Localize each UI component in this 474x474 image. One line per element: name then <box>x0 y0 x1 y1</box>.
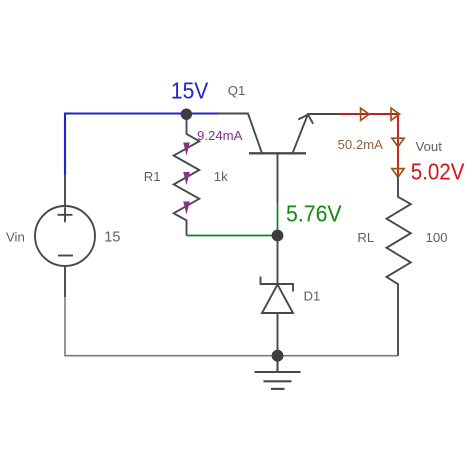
svg-text:50.2mA: 50.2mA <box>338 137 384 152</box>
svg-text:D1: D1 <box>304 289 321 304</box>
svg-text:9.24mA: 9.24mA <box>197 128 243 143</box>
svg-text:Q1: Q1 <box>228 83 246 98</box>
wire: 5.76V net horizontal (R1 bottom to base node, green) <box>187 235 278 237</box>
svg-text:R1: R1 <box>144 169 161 184</box>
diode D1 (zener) <box>261 241 294 356</box>
svg-text:5.76V: 5.76V <box>286 201 342 227</box>
svg-text:15: 15 <box>104 230 120 246</box>
resistor RL <box>387 177 411 356</box>
resistor R1 <box>174 120 200 236</box>
wire: ground net left (Vin bottom to ground node) <box>65 297 278 356</box>
svg-text:Vout: Vout <box>416 139 443 154</box>
voltage source Vin <box>35 175 95 297</box>
wire: 5.76V net vertical (Q1 base to base node, green) <box>277 203 279 236</box>
base lead <box>277 153 279 202</box>
node: ground (D1/ground junction) <box>272 350 284 362</box>
collector lead <box>218 114 263 154</box>
transistor Q1 <box>218 114 340 203</box>
wire: ground net right (ground node to RL bottom) <box>278 355 399 357</box>
emitter lead <box>293 114 340 153</box>
node: 5.76V (base/zener junction) <box>272 230 284 242</box>
base bar <box>249 152 306 154</box>
node: 15V (Vin/R1/Q1 junction) <box>181 109 192 120</box>
emitter arrow <box>298 115 313 124</box>
wire: Vout net horizontal (emitter to corner, red) <box>340 113 399 115</box>
current arrows R1 (purple) <box>183 111 190 214</box>
svg-text:1k: 1k <box>214 169 228 184</box>
ground <box>255 355 301 389</box>
wire: 15V net (Vin top to Q1 collector, blue) <box>65 114 218 176</box>
svg-text:100: 100 <box>426 230 448 245</box>
svg-text:RL: RL <box>357 230 374 245</box>
current arrows Vout wire (brown outline) <box>361 108 405 177</box>
svg-text:15V: 15V <box>171 78 209 104</box>
svg-text:Vin: Vin <box>6 230 25 245</box>
svg-text:5.02V: 5.02V <box>411 159 465 185</box>
wire: Vout net vertical (corner to RL top, red) <box>397 113 399 176</box>
